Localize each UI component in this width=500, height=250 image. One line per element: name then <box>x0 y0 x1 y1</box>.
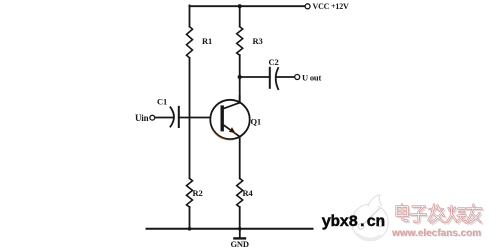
svg-text:ybx8.cn: ybx8.cn <box>322 213 385 231</box>
svg-text:Uin: Uin <box>135 113 149 123</box>
U out terminal <box>295 75 300 80</box>
resistor R2 <box>187 178 193 207</box>
wire right rail lower <box>239 207 241 229</box>
Uin terminal <box>150 115 155 120</box>
node bottom left junction <box>188 227 192 231</box>
wire C2 branch <box>240 76 270 78</box>
capacitor C1 curved plate <box>170 107 174 126</box>
wire left rail upper <box>189 5 191 26</box>
ground bar <box>234 237 245 239</box>
Q1 body circle <box>210 100 249 139</box>
transistor Q1 <box>210 95 249 140</box>
svg-text:www.elecfans.com: www.elecfans.com <box>391 228 481 239</box>
node top junction <box>238 4 242 8</box>
watermark 电子发烧友 shadow <box>398 206 483 224</box>
wire top rail <box>190 5 305 7</box>
ground stub <box>239 229 241 238</box>
wire left rail lower <box>189 207 191 229</box>
svg-text:R1: R1 <box>202 36 212 46</box>
wire right rail to collector <box>239 55 241 103</box>
svg-text:C1: C1 <box>157 96 167 106</box>
VCC terminal <box>305 4 310 9</box>
svg-text:R2: R2 <box>193 188 203 198</box>
svg-text:C2: C2 <box>269 57 279 67</box>
watermark 电子发烧友 white core <box>397 205 482 223</box>
node ground junction <box>238 227 242 231</box>
node C2 tap <box>238 75 242 79</box>
capacitor C2 plate <box>269 68 271 88</box>
watermark 电子发烧友 red outline <box>397 205 482 223</box>
svg-text:R3: R3 <box>253 36 263 46</box>
wire emitter down <box>239 137 241 179</box>
Q1 collector stroke <box>224 103 241 109</box>
svg-text:GND: GND <box>231 239 249 249</box>
resistor R3 <box>237 27 243 56</box>
wire base <box>179 117 210 119</box>
capacitor C1 plate <box>178 107 180 127</box>
ybx8 logo circle <box>352 195 389 241</box>
wire C2 to output <box>277 76 295 78</box>
烧 <box>448 208 468 224</box>
svg-text:VCC +12V: VCC +12V <box>313 2 349 11</box>
电 <box>398 206 409 222</box>
发 <box>430 206 446 224</box>
wire collector stub <box>239 95 241 103</box>
wire right rail upper <box>239 6 241 26</box>
svg-text:R4: R4 <box>243 188 254 198</box>
子 <box>412 208 428 223</box>
Q1 emitter arrow <box>212 130 235 140</box>
svg-text:Q1: Q1 <box>251 117 261 127</box>
wire bottom rail <box>147 228 313 230</box>
resistor R4 <box>237 178 243 207</box>
友 <box>468 206 483 224</box>
wire left rail middle <box>189 58 191 179</box>
wire input to C1 <box>155 117 173 119</box>
svg-text:U out: U out <box>302 72 321 82</box>
resistor R1 <box>187 27 193 58</box>
Q1 emitter stroke <box>224 125 241 137</box>
Q1 base bar <box>220 105 223 131</box>
capacitor C2 curved plate <box>276 68 279 89</box>
